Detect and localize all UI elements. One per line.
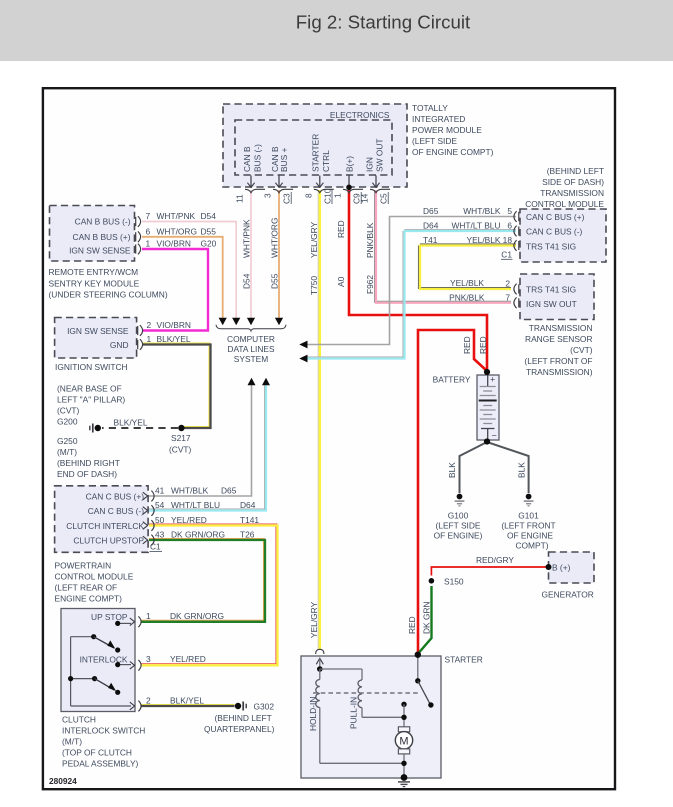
clutch switch internal wiring xyxy=(71,623,131,706)
junction battery positive xyxy=(484,369,490,375)
svg-text:SYSTEM: SYSTEM xyxy=(234,354,268,364)
svg-text:BATTERY: BATTERY xyxy=(433,375,471,385)
svg-text:BLK/YEL: BLK/YEL xyxy=(170,696,204,706)
G200 location text xyxy=(57,384,125,480)
label WHT/ORG D55 vertical xyxy=(270,218,280,289)
starter solenoid wire connector (YEL/GRY entry) xyxy=(316,649,324,669)
svg-text:YEL/GRY: YEL/GRY xyxy=(309,221,319,258)
starter internal node xyxy=(317,666,323,672)
svg-text:CAN B: CAN B xyxy=(242,146,252,172)
label DK GRN vertical xyxy=(421,601,431,634)
svg-text:POWERTRAIN: POWERTRAIN xyxy=(55,561,112,571)
svg-text:DATA LINES: DATA LINES xyxy=(227,344,275,354)
PCM connector C1 xyxy=(150,542,163,552)
svg-text:(M/T): (M/T) xyxy=(62,737,82,747)
range sensor location text xyxy=(524,323,592,377)
svg-text:STARTER: STARTER xyxy=(445,655,483,665)
svg-text:BLK/YEL: BLK/YEL xyxy=(114,418,148,428)
svg-text:PEDAL ASSEMBLY): PEDAL ASSEMBLY) xyxy=(62,759,139,769)
label RED A0 vertical xyxy=(336,220,346,287)
svg-text:(LEFT FRONT OF: (LEFT FRONT OF xyxy=(524,356,592,366)
svg-text:1: 1 xyxy=(146,611,151,621)
TIPM pin label IGN SW OUT xyxy=(365,139,385,173)
svg-text:7: 7 xyxy=(146,211,151,221)
clutch switch location text xyxy=(62,715,145,769)
svg-text:VIO/BRN: VIO/BRN xyxy=(157,320,191,330)
svg-text:YEL/RED: YEL/RED xyxy=(171,515,207,525)
svg-text:BUS (-): BUS (-) xyxy=(253,144,263,172)
clutch switch pin 3 xyxy=(130,654,151,671)
svg-text:54: 54 xyxy=(155,500,165,510)
module generator xyxy=(542,552,595,600)
svg-text:(CVT): (CVT) xyxy=(570,345,593,355)
label RED vertical near starter xyxy=(407,616,417,634)
PCM pin 43 xyxy=(143,530,165,546)
label HOLD-IN xyxy=(308,697,318,731)
svg-text:GND: GND xyxy=(110,340,129,350)
svg-text:C3: C3 xyxy=(282,193,292,204)
module remote entry / WCM sentry key module xyxy=(50,206,135,262)
label BLK left xyxy=(447,462,457,478)
ground G200 xyxy=(90,424,101,433)
svg-text:WHT/BLK: WHT/BLK xyxy=(463,206,501,216)
wire WHT/BLK D65, TCM pin 5 to data lines arrow xyxy=(307,217,516,345)
svg-text:S217: S217 xyxy=(171,433,191,443)
svg-text:RED: RED xyxy=(462,336,472,354)
wire WHT/ORG D55 from remote entry pin 6 xyxy=(142,237,223,318)
svg-text:G101: G101 xyxy=(518,511,539,521)
svg-text:50: 50 xyxy=(155,515,165,525)
TCM pin 18 xyxy=(503,235,519,251)
svg-text:IGN: IGN xyxy=(365,157,375,172)
svg-text:IGN SW SENSE: IGN SW SENSE xyxy=(69,246,131,256)
svg-text:CAN C BUS (-): CAN C BUS (-) xyxy=(526,227,583,237)
svg-text:G200: G200 xyxy=(57,417,78,427)
svg-text:(BEHIND LEFT: (BEHIND LEFT xyxy=(547,166,604,176)
wire WHT/LT BLU D64, TCM pin 6 to data lines arrow xyxy=(307,229,516,358)
svg-text:3: 3 xyxy=(263,193,273,198)
TIPM pin 11 xyxy=(235,176,265,204)
svg-text:OF ENGINE COMPT): OF ENGINE COMPT) xyxy=(412,147,494,157)
label D65 WHT/BLK 5 xyxy=(423,206,501,216)
svg-text:T141: T141 xyxy=(240,515,259,525)
clutch switch pin 2 xyxy=(130,696,151,712)
svg-text:BUS +: BUS + xyxy=(279,147,289,172)
wire BLK battery negative to ground G101 xyxy=(487,442,529,493)
wire WHT/PNK D54 from remote entry pin 7 xyxy=(142,222,236,319)
svg-text:YEL/BLK: YEL/BLK xyxy=(450,278,484,288)
svg-text:CLUTCH: CLUTCH xyxy=(62,715,96,725)
label 43 DK GRN/ORG T26 xyxy=(171,530,255,540)
svg-text:(LEFT SIDE: (LEFT SIDE xyxy=(412,136,457,146)
svg-text:WHT/ORG: WHT/ORG xyxy=(157,226,197,236)
generator B+ terminal dot xyxy=(546,564,552,570)
svg-text:VIO/BRN: VIO/BRN xyxy=(157,239,191,249)
svg-text:(LEFT SIDE: (LEFT SIDE xyxy=(436,521,481,531)
svg-text:2: 2 xyxy=(146,696,151,706)
svg-text:CAN C BUS (+): CAN C BUS (+) xyxy=(86,492,145,502)
clutch switch pin 1 xyxy=(130,611,151,627)
svg-text:(M/T): (M/T) xyxy=(57,447,77,457)
svg-text:RANGE SENSOR: RANGE SENSOR xyxy=(525,334,592,344)
svg-text:ELECTRONICS: ELECTRONICS xyxy=(330,110,390,120)
junction red/green at starter terminal xyxy=(415,652,421,658)
label BLK/YEL xyxy=(157,334,191,344)
module TCM transmission control module xyxy=(520,209,606,262)
svg-text:D65: D65 xyxy=(221,486,237,496)
svg-text:SIDE OF DASH): SIDE OF DASH) xyxy=(542,177,604,187)
svg-text:IGNITION SWITCH: IGNITION SWITCH xyxy=(55,362,128,372)
svg-text:2: 2 xyxy=(505,279,510,289)
svg-text:TRS T41 SIG: TRS T41 SIG xyxy=(526,242,576,252)
svg-text:WHT/LT BLU: WHT/LT BLU xyxy=(451,221,500,231)
label 1 VIO/BRN G20 xyxy=(157,239,217,249)
ground G101 xyxy=(501,494,555,551)
PCM pin 50 xyxy=(143,515,165,531)
svg-text:CAN C BUS (+): CAN C BUS (+) xyxy=(526,212,585,222)
svg-text:1: 1 xyxy=(146,239,151,249)
remote entry pin 6 xyxy=(136,226,151,242)
svg-text:7: 7 xyxy=(505,292,510,302)
label 3 YEL/RED xyxy=(170,654,206,664)
svg-text:TRANSMISSION): TRANSMISSION) xyxy=(526,367,593,377)
ground G100 xyxy=(434,494,483,541)
svg-text:2: 2 xyxy=(147,320,152,330)
svg-text:D54: D54 xyxy=(201,211,217,221)
splice S150 xyxy=(429,576,464,586)
ignition switch pin 2 xyxy=(138,320,152,336)
TIPM pin label CAN B BUS (-) xyxy=(242,144,263,172)
svg-text:INTERLOCK: INTERLOCK xyxy=(80,655,128,665)
svg-text:HOLD-IN: HOLD-IN xyxy=(308,697,318,731)
svg-text:RED: RED xyxy=(407,616,417,634)
svg-text:G20: G20 xyxy=(201,239,217,249)
TIPM pin 3 xyxy=(263,176,293,205)
label 41 WHT/BLK D65 xyxy=(171,486,237,496)
svg-text:UP STOP: UP STOP xyxy=(91,612,128,622)
svg-text:C1: C1 xyxy=(501,250,512,260)
svg-text:DK GRN/ORG: DK GRN/ORG xyxy=(170,611,224,621)
clutch interlock switch arm xyxy=(68,662,120,695)
svg-text:QUARTERPANEL): QUARTERPANEL) xyxy=(204,724,275,734)
ignition switch caption xyxy=(55,362,128,372)
svg-text:Fig 2: Starting Circuit: Fig 2: Starting Circuit xyxy=(296,12,471,33)
svg-text:(LEFT REAR OF: (LEFT REAR OF xyxy=(55,583,118,593)
PCM pin 54 xyxy=(143,500,165,516)
module transmission range sensor xyxy=(520,274,594,320)
clutch up stop switch arm xyxy=(91,621,120,653)
label 2 BLK/YEL xyxy=(170,696,204,706)
label RED vertical (TIPM feed) xyxy=(478,336,488,354)
label 1 DK GRN/ORG xyxy=(170,611,224,621)
arrow into data lines from TCM WHT/LT BLU xyxy=(299,355,307,363)
ground G302 xyxy=(204,702,275,735)
wire VIO/BRN G20 remote entry pin 1 to ignition switch pin 2 xyxy=(142,249,208,331)
svg-text:WHT/PNK: WHT/PNK xyxy=(242,219,252,258)
svg-text:DK GRN: DK GRN xyxy=(421,601,431,634)
svg-text:REMOTE ENTRY/WCM: REMOTE ENTRY/WCM xyxy=(49,267,139,277)
svg-text:WHT/BLK: WHT/BLK xyxy=(171,486,209,496)
label PULL-IN xyxy=(349,697,359,729)
svg-text:GENERATOR: GENERATOR xyxy=(542,590,594,600)
splice S217 xyxy=(169,425,192,455)
wire YEL/RED T141, PCM pin 50 to clutch interlock pin 3 xyxy=(141,524,278,665)
svg-text:BLK: BLK xyxy=(447,462,457,478)
svg-text:WHT/LT BLU: WHT/LT BLU xyxy=(171,500,220,510)
svg-text:C5: C5 xyxy=(379,193,389,204)
wire BLK/YEL dashed to ground G200 xyxy=(102,427,178,429)
svg-text:G302: G302 xyxy=(254,702,275,712)
svg-text:STARTER: STARTER xyxy=(310,134,320,172)
svg-text:CLUTCH INTERLCK: CLUTCH INTERLCK xyxy=(66,521,144,531)
svg-text:END OF DASH): END OF DASH) xyxy=(57,469,117,479)
svg-text:(NEAR BASE OF: (NEAR BASE OF xyxy=(57,384,122,394)
svg-text:(UNDER STEERING COLUMN): (UNDER STEERING COLUMN) xyxy=(49,290,168,300)
svg-text:(LEFT FRONT: (LEFT FRONT xyxy=(501,521,555,531)
svg-text:(BEHIND RIGHT: (BEHIND RIGHT xyxy=(57,458,120,468)
module TIPM totally integrated power module xyxy=(223,104,407,187)
svg-text:SW OUT: SW OUT xyxy=(375,139,385,173)
label PNK/BLK F962 vertical xyxy=(365,222,375,294)
svg-text:T41: T41 xyxy=(423,235,438,245)
svg-text:POWER MODULE: POWER MODULE xyxy=(412,125,482,135)
svg-text:IGN SW SENSE: IGN SW SENSE xyxy=(67,326,129,336)
svg-text:BLK: BLK xyxy=(517,462,527,478)
svg-text:TRS T41 SIG: TRS T41 SIG xyxy=(526,285,576,295)
label VIO/BRN xyxy=(157,320,191,330)
svg-text:LEFT "A" PILLAR): LEFT "A" PILLAR) xyxy=(57,395,125,405)
svg-text:INTERLOCK SWITCH: INTERLOCK SWITCH xyxy=(62,726,145,736)
svg-text:G250: G250 xyxy=(57,436,78,446)
svg-text:YEL/GRY: YEL/GRY xyxy=(309,601,319,638)
TCM pin 6 xyxy=(507,221,518,237)
label 7 WHT/PNK D54 xyxy=(157,211,217,221)
svg-text:CONTROL MODULE: CONTROL MODULE xyxy=(55,572,134,582)
starter motor M xyxy=(395,727,412,754)
junction battery negative xyxy=(484,438,490,444)
label BLK right xyxy=(517,462,527,478)
TIPM pin label CAN B BUS + xyxy=(270,146,289,172)
svg-text:S150: S150 xyxy=(444,576,464,586)
TCM location text xyxy=(525,166,604,209)
range sensor pin 2 xyxy=(505,279,518,295)
svg-text:TOTALLY: TOTALLY xyxy=(412,103,448,113)
range sensor pin 7 xyxy=(505,292,518,308)
label YEL/GRY vertical lower xyxy=(309,601,319,638)
svg-text:6: 6 xyxy=(146,226,151,236)
svg-text:OF ENGINE: OF ENGINE xyxy=(507,531,553,541)
svg-text:T26: T26 xyxy=(240,530,255,540)
remote entry location text xyxy=(49,267,168,300)
label BLK/YEL above dashed wire xyxy=(114,418,148,428)
starter switch xyxy=(415,656,434,708)
svg-text:IGN SW OUT: IGN SW OUT xyxy=(526,299,577,309)
arrow up into data lines from PCM WHT/LT BLU xyxy=(262,378,270,385)
wire RED/GRY splice S150 to generator xyxy=(431,567,548,576)
label 54 WHT/LT BLU D64 xyxy=(171,500,256,510)
svg-text:WHT/PNK: WHT/PNK xyxy=(157,211,196,221)
svg-text:YEL/RED: YEL/RED xyxy=(170,654,206,664)
motor feed contact xyxy=(401,702,406,727)
arrow up into data lines from PCM WHT/BLK xyxy=(248,378,256,385)
wire BLK/YEL ignition switch pin 1 to splice S217 xyxy=(143,343,211,428)
svg-text:(TOP OF CLUTCH: (TOP OF CLUTCH xyxy=(62,748,132,758)
node computer data lines system xyxy=(216,318,286,364)
svg-text:G100: G100 xyxy=(448,511,469,521)
svg-text:BLK/YEL: BLK/YEL xyxy=(157,334,191,344)
wire BLK/YEL clutch interlock pin 2 to ground G302 xyxy=(141,704,235,706)
svg-text:−: − xyxy=(492,431,497,441)
svg-text:RED/GRY: RED/GRY xyxy=(476,555,514,565)
label 6 WHT/ORG D55 xyxy=(157,226,217,236)
svg-text:TRANSMISSION: TRANSMISSION xyxy=(540,188,604,198)
PCM location text xyxy=(55,561,134,604)
svg-text:CLUTCH UPSTOP: CLUTCH UPSTOP xyxy=(73,536,144,546)
module PCM powertrain control module xyxy=(55,486,149,553)
wire DK GRN/ORG T26, PCM pin 43 to clutch up stop pin 1 xyxy=(141,538,265,621)
svg-text:D54: D54 xyxy=(242,273,252,289)
wire DK GRN splice S150 to starter xyxy=(418,586,432,654)
svg-text:3: 3 xyxy=(146,654,151,664)
TIPM pin 1 xyxy=(333,176,363,205)
svg-text:YEL/BLK: YEL/BLK xyxy=(467,235,501,245)
wire RED A0, TIPM pin 1 to battery positive xyxy=(349,190,487,371)
module clutch interlock switch xyxy=(61,609,135,712)
svg-text:18: 18 xyxy=(503,235,513,245)
TCM connector C1 xyxy=(501,250,513,260)
label YEL/GRY T750 vertical xyxy=(309,221,319,295)
label YEL/BLK 2 xyxy=(450,278,484,288)
svg-text:PULL-IN: PULL-IN xyxy=(349,697,359,729)
svg-text:COMPT): COMPT) xyxy=(515,541,548,551)
pull-in coil xyxy=(320,669,404,717)
svg-text:CAN B BUS (+): CAN B BUS (+) xyxy=(73,232,131,242)
label RED vertical (battery feed) xyxy=(462,336,472,354)
wire WHT/PNK D54 from TIPM pin 11 xyxy=(250,190,252,318)
svg-text:RED: RED xyxy=(478,336,488,354)
label RED/GRY xyxy=(476,555,514,565)
svg-text:CAN C BUS (-): CAN C BUS (-) xyxy=(88,506,145,516)
label D64 WHT/LT BLU 6 xyxy=(423,221,501,231)
svg-text:T750: T750 xyxy=(309,276,319,295)
svg-text:41: 41 xyxy=(155,486,165,496)
diagram frame xyxy=(43,88,615,789)
svg-text:CTRL: CTRL xyxy=(321,150,331,172)
svg-text:CONTROL MODULE: CONTROL MODULE xyxy=(525,199,604,209)
svg-text:B (+): B (+) xyxy=(552,563,571,573)
remote entry pin 1 xyxy=(136,239,151,255)
svg-text:SENTRY KEY MODULE: SENTRY KEY MODULE xyxy=(49,278,140,288)
svg-text:PNK/BLK: PNK/BLK xyxy=(449,293,485,303)
label PNK/BLK 7 xyxy=(449,293,485,303)
svg-text:TRANSMISSION: TRANSMISSION xyxy=(529,323,593,333)
TIPM pin 14 xyxy=(360,176,390,205)
starter assembly box xyxy=(301,655,483,779)
svg-text:A0: A0 xyxy=(336,276,346,287)
svg-text:D65: D65 xyxy=(423,206,439,216)
svg-text:5: 5 xyxy=(507,206,512,216)
wire WHT/LT BLU D64, PCM pin 54 up to data lines xyxy=(149,385,266,510)
svg-text:1: 1 xyxy=(147,334,152,344)
svg-text:D64: D64 xyxy=(240,500,256,510)
svg-text:B(+): B(+) xyxy=(344,156,354,172)
TIPM location text xyxy=(412,103,494,157)
clutch switch label UP STOP xyxy=(91,612,128,622)
label 50 YEL/RED T141 xyxy=(171,515,259,525)
label WHT/PNK D54 vertical xyxy=(242,219,252,289)
svg-text:DK GRN/ORG: DK GRN/ORG xyxy=(171,530,225,540)
TIPM pin label B(+) xyxy=(344,156,354,172)
svg-text:1: 1 xyxy=(333,193,343,198)
svg-text:D55: D55 xyxy=(270,273,280,289)
battery xyxy=(433,375,499,441)
svg-text:M: M xyxy=(399,735,408,747)
svg-text:ENGINE COMPT): ENGINE COMPT) xyxy=(55,594,123,604)
svg-text:RED: RED xyxy=(336,220,346,238)
svg-text:COMPUTER: COMPUTER xyxy=(227,334,275,344)
svg-text:F962: F962 xyxy=(365,275,375,294)
ignition switch pin 1 xyxy=(138,334,152,350)
svg-text:C10: C10 xyxy=(322,188,332,204)
label T41 YEL/BLK 18 xyxy=(423,235,501,245)
hold-in coil xyxy=(316,669,404,763)
svg-text:(CVT): (CVT) xyxy=(169,445,192,455)
svg-text:+: + xyxy=(490,375,495,385)
svg-text:C1: C1 xyxy=(150,542,161,552)
svg-text:6: 6 xyxy=(507,221,512,231)
svg-text:PNK/BLK: PNK/BLK xyxy=(365,222,375,258)
diagram number 280924 xyxy=(49,776,77,786)
svg-text:WHT/ORG: WHT/ORG xyxy=(270,218,280,258)
svg-text:OF ENGINE): OF ENGINE) xyxy=(434,531,483,541)
svg-text:11: 11 xyxy=(235,194,245,203)
svg-text:43: 43 xyxy=(155,530,165,540)
svg-text:8: 8 xyxy=(304,193,314,198)
wire WHT/ORG D55 from TIPM pin 3 xyxy=(278,190,280,318)
solenoid linkage dashed xyxy=(313,692,421,694)
svg-text:D55: D55 xyxy=(201,226,217,236)
clutch switch label INTERLOCK xyxy=(80,655,128,665)
svg-text:14: 14 xyxy=(360,193,370,203)
TIPM pin 8 xyxy=(304,176,334,205)
arrow into data lines from TCM WHT/BLK xyxy=(299,341,307,349)
PCM pin 41 xyxy=(143,486,165,502)
wire YEL/GRY T750 starter control, TIPM pin 8 to starter xyxy=(318,190,320,650)
svg-text:INTEGRATED: INTEGRATED xyxy=(412,114,465,124)
starter ground xyxy=(398,774,410,787)
wire BLK battery negative to ground G100 xyxy=(460,442,488,493)
wire PNK/BLK F962, TIPM pin 14 to range sensor pin 7 xyxy=(374,190,511,303)
wire WHT/BLK D65, PCM pin 41 up to data lines xyxy=(149,385,252,496)
TCM pin 5 xyxy=(507,206,518,222)
svg-text:(BEHIND LEFT: (BEHIND LEFT xyxy=(215,713,272,723)
module ignition switch xyxy=(55,318,137,359)
title bar xyxy=(0,0,673,61)
svg-text:(CVT): (CVT) xyxy=(57,406,80,416)
wire RED battery positive to starter xyxy=(418,330,487,655)
TIPM pin label STARTER CTRL xyxy=(310,134,331,172)
svg-text:D64: D64 xyxy=(423,221,439,231)
wire YEL/BLK T41, TCM pin 18 to range sensor pin 2 xyxy=(418,244,516,289)
motor ground wiring xyxy=(401,754,406,778)
svg-text:280924: 280924 xyxy=(49,776,77,786)
svg-text:CAN B BUS (-): CAN B BUS (-) xyxy=(75,217,131,227)
remote entry pin 7 xyxy=(136,211,151,227)
